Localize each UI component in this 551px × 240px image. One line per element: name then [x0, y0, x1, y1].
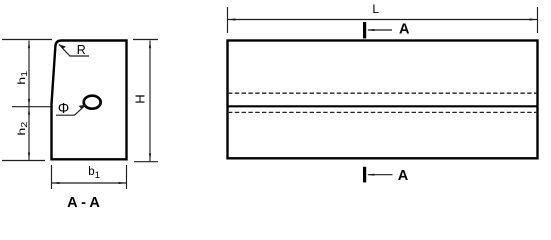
- svg-text:A: A: [399, 22, 410, 38]
- dimension h1: [28, 41, 30, 107]
- extension line top-left (h1 datum): [2, 39, 52, 41]
- section cut mark top (thick stroke): [363, 22, 366, 38]
- svg-text:L: L: [372, 2, 379, 16]
- label Phi: [58, 101, 70, 117]
- dimension b1: [52, 182, 126, 184]
- label H: [133, 94, 148, 103]
- extension line bottom right (b1): [126, 165, 128, 189]
- dimension h2: [28, 107, 30, 160]
- extension line L left: [227, 7, 229, 33]
- extension line bottom-right (H datum): [134, 161, 158, 163]
- leader R (corner radius callout): [59, 44, 89, 56]
- label R: [77, 43, 86, 57]
- hidden line upper (dashed): [228, 92, 537, 94]
- label L: [372, 2, 379, 16]
- extension line top-right (H datum): [133, 39, 158, 41]
- leader Phi (hole diameter callout): [56, 105, 86, 116]
- svg-text:A - A: A - A: [67, 195, 100, 211]
- visible edge line (solid middle): [228, 105, 537, 107]
- extension line L right: [537, 7, 539, 33]
- label b1: [88, 166, 100, 181]
- extension line bottom left (b1): [51, 165, 53, 189]
- label A top: [399, 22, 410, 38]
- dimension L: [228, 18, 537, 20]
- section A-A outline (wedge cross-section): [52, 41, 127, 160]
- hole (diameter Phi): [84, 96, 101, 109]
- extension line middle-left (h1/h2 boundary): [12, 106, 51, 108]
- hidden line lower (dashed): [228, 111, 537, 113]
- section arrow top: [367, 29, 392, 31]
- svg-text:Φ: Φ: [58, 101, 70, 117]
- section arrow bottom: [367, 174, 393, 176]
- section title A - A: [67, 195, 100, 211]
- label h1: [16, 71, 30, 85]
- side view rectangle (wedge body): [228, 41, 538, 159]
- section cut mark bottom (thick stroke): [363, 167, 366, 183]
- dimension H: [149, 41, 151, 162]
- svg-text:R: R: [77, 43, 86, 57]
- svg-text:A: A: [398, 168, 409, 184]
- label A bottom: [398, 168, 409, 184]
- label h2: [16, 122, 30, 136]
- extension line bottom-left (h2 datum): [2, 160, 45, 162]
- svg-text:H: H: [133, 94, 148, 103]
